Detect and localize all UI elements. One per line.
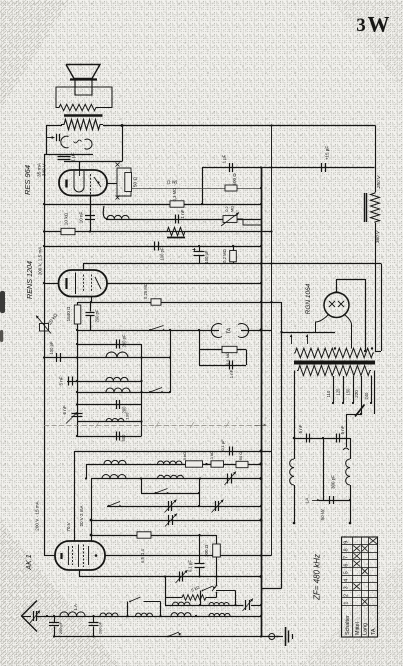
choke winding resistor bbox=[371, 192, 380, 223]
svg-text:200 V, 1,5 mA: 200 V, 1,5 mA bbox=[38, 246, 43, 276]
switch contact ground bbox=[167, 632, 182, 637]
wire x91 AK1 feed bbox=[91, 479, 93, 542]
wire y493 osc switch bbox=[141, 493, 199, 495]
transformer primary winding bbox=[297, 366, 371, 376]
svg-text:250 V: 250 V bbox=[376, 175, 382, 189]
wire y605 row bbox=[165, 605, 244, 607]
junction y330 bbox=[76, 329, 263, 332]
capacitor 100pF series bbox=[155, 242, 165, 261]
label 35 mA bbox=[37, 162, 43, 177]
capacitor 15uF electrolytic bbox=[322, 146, 330, 172]
label 340 V bbox=[42, 163, 48, 176]
RGN filament lead right bbox=[345, 315, 352, 349]
svg-text:1 nF: 1 nF bbox=[229, 369, 234, 378]
capacitor 5nF bbox=[59, 376, 73, 385]
tube RGN1064 envelope bbox=[324, 293, 349, 318]
svg-text:200 pF: 200 pF bbox=[95, 309, 100, 322]
switch contact row3 bbox=[149, 388, 163, 394]
capacitor 5nF b bbox=[337, 425, 346, 442]
svg-text:70 V: 70 V bbox=[66, 521, 71, 531]
junction y464 bbox=[205, 462, 262, 465]
wire x199 osc drop bbox=[199, 479, 201, 507]
wire AK1 left lead bbox=[44, 555, 55, 557]
junction top bus x272 bbox=[270, 124, 272, 126]
wire left drop x46 bbox=[46, 126, 48, 155]
junction y576.5 bbox=[164, 575, 263, 578]
junction y616 bbox=[46, 615, 262, 617]
capacitor 200pF ant b bbox=[89, 616, 103, 637]
label 50W bbox=[320, 509, 325, 520]
wire y263.5 diode line bbox=[83, 263, 381, 265]
junction y535 bbox=[90, 534, 201, 537]
tube RENS1204 envelope bbox=[59, 270, 108, 297]
capacitor 1nF TA bbox=[229, 361, 234, 379]
wire x281.5 drop bbox=[261, 302, 282, 589]
output transformer primary winding bbox=[61, 119, 103, 129]
wire y246 AVC bbox=[44, 246, 261, 248]
junction y451 bbox=[260, 450, 263, 453]
pickup jack TA bbox=[211, 323, 248, 337]
antenna trimmer bbox=[22, 611, 41, 624]
svg-text:1 µF: 1 µF bbox=[71, 152, 76, 161]
svg-text:200 V · 15 mA: 200 V · 15 mA bbox=[35, 500, 40, 530]
capacitor 100uF electrolytic bbox=[193, 246, 210, 264]
svg-text:8: 8 bbox=[344, 548, 350, 551]
svg-text:RENS 1204: RENS 1204 bbox=[25, 261, 34, 299]
svg-text:10 kΩ: 10 kΩ bbox=[64, 212, 70, 225]
resistor 5 kOhm bbox=[182, 452, 203, 467]
wire right rail x376 lower bbox=[375, 223, 377, 352]
wire y204 screen line bbox=[44, 204, 261, 206]
potentiometer 1 MOhm volume bbox=[221, 205, 261, 226]
title 3W rating bbox=[356, 12, 389, 37]
svg-text:200 pF: 200 pF bbox=[58, 621, 63, 634]
capacitor 500pF osc bbox=[117, 432, 127, 442]
coil anode choke bbox=[107, 215, 129, 219]
svg-text:6: 6 bbox=[344, 564, 350, 567]
coil osc grid b bbox=[158, 461, 183, 464]
IF tank bottom wire y381 bbox=[67, 381, 142, 383]
wire x92 to RES964 anode bbox=[79, 162, 81, 172]
resistor 10 kOhm bbox=[61, 212, 75, 234]
wire x141 osc drop bbox=[141, 479, 143, 494]
svg-text:AK 1: AK 1 bbox=[26, 554, 33, 570]
resistor zigzag 5 kOhm bbox=[168, 585, 217, 601]
svg-text:1 nF: 1 nF bbox=[180, 209, 185, 218]
coil row1 b bbox=[209, 603, 229, 606]
wire top bus y125.5 bbox=[103, 125, 376, 127]
svg-text:3: 3 bbox=[344, 586, 350, 589]
transformer secondary winding bbox=[294, 348, 374, 358]
capacitor 200pF tank1 bbox=[117, 334, 127, 348]
svg-text:+15 µF: +15 µF bbox=[325, 146, 330, 160]
wire y520 band line2 bbox=[91, 520, 261, 522]
junction y493 bbox=[198, 492, 200, 494]
wire ground line y636.5 bbox=[54, 636, 283, 638]
svg-text:9: 9 bbox=[344, 541, 350, 544]
svg-text:500: 500 bbox=[121, 434, 126, 442]
resistor 0,25 MOhm bbox=[143, 283, 161, 305]
label 125 bbox=[336, 388, 341, 396]
wire x83 grid RENS bbox=[83, 264, 85, 271]
IF tank1 top wire y344 bbox=[76, 343, 142, 345]
label 240 bbox=[364, 392, 369, 400]
heater arrow 1 bbox=[290, 335, 293, 345]
wire y438 bbox=[293, 437, 350, 440]
svg-text:1 µF: 1 µF bbox=[222, 154, 227, 163]
svg-text:1 kΩ: 1 kΩ bbox=[209, 451, 214, 459]
coil osc anode a bbox=[102, 475, 126, 479]
svg-text:20 V·2 mA: 20 V·2 mA bbox=[79, 506, 84, 527]
wire x216.5 to zigzag bbox=[216, 593, 218, 598]
wire y154 bbox=[44, 154, 93, 156]
svg-text:ZF= 480 kHz: ZF= 480 kHz bbox=[313, 554, 322, 601]
junction y302 bus bbox=[260, 301, 273, 303]
loudspeaker LS cone bbox=[66, 65, 100, 80]
label 200V 15mA AK1 bbox=[35, 500, 40, 530]
resistor 6,5 Ohm bbox=[137, 532, 151, 563]
svg-text:500 Ω: 500 Ω bbox=[232, 173, 237, 186]
svg-text:2: 2 bbox=[344, 594, 350, 597]
svg-text:100 pF: 100 pF bbox=[160, 247, 165, 260]
coil row1 a bbox=[173, 602, 191, 605]
wire x170 drop bbox=[169, 330, 171, 392]
svg-text:0,25 MΩ: 0,25 MΩ bbox=[143, 283, 148, 299]
resistor 0,2 MOhm vertical bbox=[222, 246, 236, 264]
trimmer cap c bbox=[165, 514, 177, 527]
ground symbol bbox=[286, 627, 293, 646]
wire x202 drop bbox=[202, 168, 204, 205]
wire right rail x376 upper bbox=[375, 126, 377, 193]
svg-text:110: 110 bbox=[326, 390, 331, 397]
label LA arrow bbox=[305, 497, 320, 504]
transformer right lead bbox=[374, 371, 376, 415]
svg-text:RES 964: RES 964 bbox=[23, 165, 32, 195]
wire x142 IF right edge bbox=[141, 344, 143, 436]
resistor 1 kOhm bbox=[209, 451, 224, 467]
wire y167.5 decoupling bbox=[202, 167, 375, 169]
svg-text:300 pF: 300 pF bbox=[331, 475, 336, 489]
wire y302 cathode bbox=[78, 302, 282, 304]
transformer left lead bbox=[294, 371, 296, 415]
choke core bars bbox=[365, 193, 367, 222]
capacitor series x231 bbox=[222, 154, 233, 172]
wire y365 TA cap line bbox=[199, 365, 246, 367]
wire x92 grid RES964 bbox=[90, 196, 92, 232]
capacitor 100pF IF bbox=[49, 341, 61, 362]
junction y478.5 bbox=[85, 477, 263, 480]
wire y161.5 anode bbox=[64, 161, 122, 163]
coil RF choke left bbox=[290, 414, 296, 524]
svg-text:3: 3 bbox=[356, 15, 366, 36]
coil input b bbox=[100, 613, 118, 616]
label 360 V bbox=[375, 230, 381, 243]
voltage selector plug bbox=[355, 405, 365, 417]
junction y392 bbox=[76, 391, 171, 393]
wire y283 cathode line bbox=[44, 283, 261, 285]
wire y576.5 bbox=[79, 576, 261, 578]
junction y263.5 bbox=[260, 262, 273, 264]
coil input e bbox=[209, 613, 230, 616]
trimmer capacitor osc bbox=[225, 472, 237, 486]
label 200V 1,5mA bbox=[38, 246, 43, 276]
svg-text:100 µF: 100 µF bbox=[204, 250, 209, 264]
svg-text:220: 220 bbox=[354, 390, 359, 398]
capacitor 200pF cathode bbox=[86, 302, 100, 330]
label AK1 bbox=[26, 554, 33, 570]
junction y506 bbox=[198, 505, 262, 507]
rectifier anode loop bbox=[337, 279, 367, 352]
coil osc anode b bbox=[158, 475, 184, 478]
coil LA antenna bbox=[60, 603, 85, 616]
RGN1064 filament bbox=[329, 292, 344, 307]
trimmer cap b bbox=[212, 500, 224, 513]
svg-text:5 nF: 5 nF bbox=[59, 376, 64, 385]
svg-text:LA: LA bbox=[73, 603, 79, 610]
capacitor 5nF a bbox=[298, 424, 310, 442]
label 70 V bbox=[66, 521, 71, 531]
wire x216.5 below bbox=[216, 577, 218, 586]
svg-text:100 Ω: 100 Ω bbox=[204, 544, 209, 557]
svg-text:50 Ω: 50 Ω bbox=[133, 176, 139, 187]
coil osc tank bbox=[106, 419, 124, 422]
svg-text:MΩ: MΩ bbox=[230, 206, 235, 212]
junction y188 bus bbox=[260, 187, 262, 189]
svg-text:5 kΩ: 5 kΩ bbox=[182, 452, 187, 460]
svg-text:200 pF: 200 pF bbox=[98, 621, 103, 634]
output transformer secondary arcs bbox=[61, 136, 92, 149]
svg-text:Lang: Lang bbox=[362, 623, 368, 635]
resistor 0,3 MOhm bbox=[170, 188, 184, 208]
junction sec taps bbox=[334, 347, 373, 349]
svg-text:50 W: 50 W bbox=[320, 509, 325, 520]
coil IF secondary bbox=[106, 377, 128, 381]
label 100pF osc tank bbox=[125, 412, 130, 419]
svg-text:5: 5 bbox=[344, 571, 350, 574]
wire y500 lamp bbox=[319, 500, 350, 502]
wire drop x122 from top bus bbox=[121, 124, 124, 162]
heater arrow 2 bbox=[306, 335, 309, 345]
junction y231.5 bbox=[43, 230, 273, 232]
wire x199 TA drop bbox=[198, 329, 200, 365]
grid stopper outline box bbox=[116, 163, 132, 200]
resistor 0,5 MOhm TA bbox=[222, 346, 237, 365]
label 150 bbox=[346, 388, 351, 396]
wire x323 drop bbox=[322, 437, 324, 500]
label RENS 1204 bbox=[25, 261, 34, 299]
svg-text:150: 150 bbox=[346, 388, 351, 396]
svg-text:0,2: 0,2 bbox=[224, 205, 229, 211]
wire AK1 right lead y555.5 bbox=[105, 555, 272, 557]
wire x165 drop bbox=[165, 577, 168, 606]
wire AK1 bottom bbox=[79, 570, 81, 577]
bypass switch input bbox=[128, 597, 161, 616]
RES964 electrodes bbox=[67, 171, 102, 196]
svg-text:W: W bbox=[368, 12, 390, 37]
svg-text:1540 Ω: 1540 Ω bbox=[66, 306, 71, 321]
switch table X marks bbox=[353, 538, 376, 605]
svg-text:Schalter: Schalter bbox=[345, 615, 351, 635]
svg-text:TA: TA bbox=[371, 628, 377, 635]
capacitor 6nF bbox=[62, 405, 83, 416]
wire y231.5 grid2 bbox=[44, 231, 272, 233]
svg-text:6 nF: 6 nF bbox=[62, 405, 67, 414]
wire y451 osc bbox=[75, 451, 272, 453]
resistor zigzag tapped bbox=[165, 227, 187, 237]
tube RES964 envelope bbox=[59, 170, 107, 196]
capacitor 300pF bbox=[330, 475, 336, 504]
wire y263.5 corner to rectifier bbox=[375, 264, 382, 352]
wire x86 osc bbox=[86, 464, 88, 479]
label RGN 1064 bbox=[305, 283, 312, 314]
RENS1204 electrodes bbox=[67, 273, 102, 295]
capacitor 200pF tank2 bbox=[117, 400, 127, 414]
switch contact 1 on y330 bbox=[149, 326, 164, 332]
tuning gang dashed line bbox=[44, 422, 267, 428]
junction y246 bbox=[43, 245, 262, 247]
svg-text:5 nF: 5 nF bbox=[298, 424, 303, 433]
junction y520 bbox=[90, 519, 263, 522]
capacitor 200pF ant a bbox=[49, 616, 63, 637]
svg-text:200: 200 bbox=[122, 406, 127, 414]
svg-text:0,2 MΩ: 0,2 MΩ bbox=[222, 249, 227, 263]
svg-text:7: 7 bbox=[344, 556, 350, 559]
svg-text:100 pF: 100 pF bbox=[49, 341, 54, 354]
label 20V 2mA bbox=[79, 506, 84, 527]
junction ground line bbox=[53, 635, 262, 637]
switch contact 4 bbox=[212, 585, 217, 594]
wire y506 band line bbox=[107, 506, 261, 508]
wire y330 bbox=[77, 330, 272, 332]
switch table labels bbox=[345, 615, 377, 635]
resistor 1540 Ohm vertical bbox=[66, 302, 81, 330]
output transformer core bbox=[64, 114, 103, 117]
label ZF 480 kHz bbox=[313, 554, 322, 601]
svg-text:RGN 1064: RGN 1064 bbox=[305, 283, 312, 314]
svg-text:0,3 MΩ: 0,3 MΩ bbox=[172, 188, 177, 202]
wire row1 to bus bbox=[251, 604, 262, 606]
switch table grid bbox=[342, 537, 378, 637]
AK1 electrodes bbox=[62, 545, 98, 568]
junction y357.5 bbox=[43, 356, 78, 358]
svg-text:100: 100 bbox=[125, 412, 130, 419]
wire x74.5 AK1 feed bbox=[74, 451, 76, 541]
trimmer row1 bbox=[243, 599, 254, 612]
wire x246 TA bbox=[246, 350, 248, 366]
heater wire y332 bbox=[280, 331, 335, 333]
junction y283 bbox=[43, 282, 262, 284]
tube AK1 envelope bbox=[55, 541, 105, 570]
earth connector bbox=[269, 634, 281, 640]
switch contact 3 bbox=[108, 502, 121, 508]
capacitor 0,1uF osc bbox=[220, 439, 233, 456]
trimmer cap a bbox=[165, 500, 177, 513]
svg-text:0,1 µF: 0,1 µF bbox=[220, 439, 225, 451]
coil input c bbox=[136, 613, 153, 616]
switch contact 2 osc bbox=[155, 489, 169, 495]
svg-text:50 Ω: 50 Ω bbox=[238, 452, 243, 461]
junction y204 bbox=[43, 203, 262, 205]
svg-text:4: 4 bbox=[344, 579, 350, 582]
capacitor 1nF series bbox=[176, 209, 186, 223]
chassis bus x261 bbox=[261, 168, 263, 637]
wire y535 line bbox=[91, 535, 217, 537]
junction y555.5 bbox=[260, 554, 262, 556]
label 220 bbox=[354, 390, 359, 398]
trimmer capacitor AGC bbox=[176, 570, 188, 583]
junction 15uF line bus bbox=[260, 166, 273, 168]
potentiometer 20 kOhm bbox=[36, 312, 60, 333]
svg-text:200 pF: 200 pF bbox=[122, 334, 127, 347]
svg-text:TA: TA bbox=[227, 327, 233, 334]
wire left rail x44 bbox=[44, 154, 46, 556]
coil osc grid a bbox=[104, 460, 126, 464]
wire x91 cathode RENS bbox=[90, 297, 92, 304]
bypass switch row1 bbox=[199, 586, 237, 606]
switch table numbers bbox=[344, 541, 350, 605]
wire y188 grid line bbox=[131, 188, 261, 190]
wire RES964 to box bbox=[107, 183, 117, 185]
wire y349.5 TA resistor line bbox=[199, 349, 246, 351]
svg-text:(1 W): (1 W) bbox=[167, 180, 178, 185]
label 250 V bbox=[376, 175, 382, 189]
svg-text:10 nF: 10 nF bbox=[79, 211, 84, 223]
label RES 964 bbox=[23, 165, 32, 195]
svg-text:LA: LA bbox=[305, 497, 311, 504]
IF tank2 bottom wire y404.5 bbox=[76, 403, 142, 405]
wire y219 coupling bbox=[103, 206, 261, 220]
svg-text:1: 1 bbox=[344, 602, 350, 605]
label 110 bbox=[326, 390, 331, 397]
wire x77 IF lower bbox=[76, 380, 78, 436]
primary taps bbox=[332, 376, 372, 415]
svg-text:240: 240 bbox=[364, 392, 369, 400]
wire y436 osc bbox=[76, 435, 142, 437]
wire y392 IF row3 bbox=[77, 392, 170, 394]
svg-text:0,1 µF: 0,1 µF bbox=[188, 560, 193, 572]
capacitor 1uF speaker bbox=[58, 152, 76, 161]
switch arrow over 6nF bbox=[66, 412, 78, 424]
coil RF choke right bbox=[346, 438, 352, 524]
resistor 50 Ohm bbox=[125, 173, 139, 192]
coil input d bbox=[171, 613, 191, 616]
label (1W) bbox=[167, 180, 178, 185]
field coil box bbox=[56, 87, 112, 111]
resistor 50 Ohm osc bbox=[236, 452, 248, 468]
capacitor 0,1uF AK1 bbox=[188, 535, 205, 577]
rail x271.5 bbox=[271, 126, 273, 556]
wire y421.5 osc tank bbox=[77, 421, 142, 423]
wire y357.5 IF bbox=[44, 357, 170, 359]
selector wire bbox=[343, 414, 361, 450]
transformer core bbox=[294, 362, 375, 364]
wire y478.5 osc anode bbox=[91, 478, 261, 480]
svg-text:Mittel: Mittel bbox=[355, 622, 361, 635]
resistor 500 Ohm bbox=[225, 173, 237, 191]
wire x77 IF bbox=[77, 330, 79, 381]
speaker plug connector bbox=[47, 134, 60, 141]
svg-text:360 V: 360 V bbox=[375, 230, 381, 243]
wire y616 input bbox=[37, 616, 261, 618]
antenna symbol bbox=[22, 601, 38, 632]
RGN filament lead left bbox=[316, 315, 329, 333]
resistor 100 Ohm bbox=[204, 535, 220, 577]
capacitor 10nF bbox=[79, 211, 96, 223]
junction x142 bbox=[140, 356, 142, 422]
loudspeaker magnet bbox=[75, 81, 92, 96]
svg-text:125: 125 bbox=[336, 388, 341, 396]
svg-text:5 nF: 5 nF bbox=[340, 425, 345, 434]
